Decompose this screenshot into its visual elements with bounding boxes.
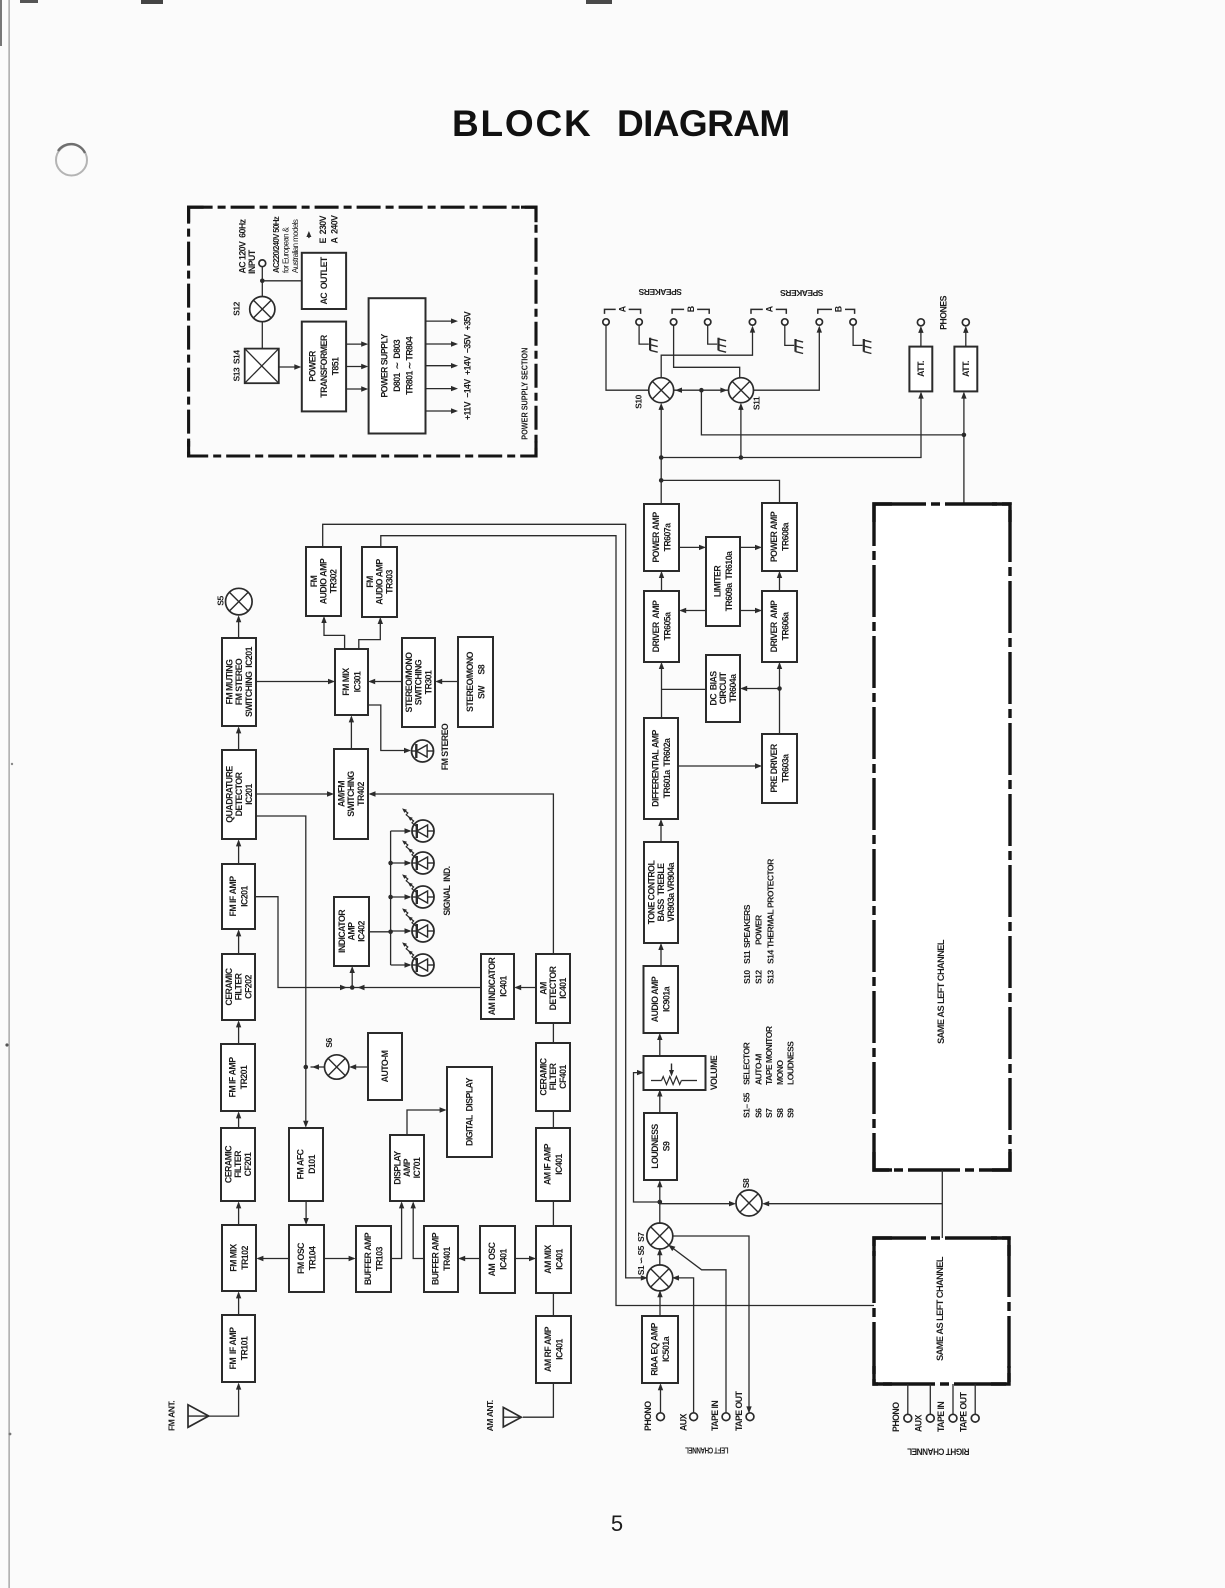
svg-text:E 230V: E 230V — [318, 215, 328, 243]
label LEFT CHANNEL — [685, 1446, 728, 1455]
label SPEAKERS group 2 — [780, 288, 824, 298]
wire S7 to loudness — [657, 1180, 662, 1224]
wire IC201 to quadrature detector — [236, 839, 241, 864]
label A group2 — [751, 305, 786, 314]
svg-text:S9: S9 — [661, 1141, 671, 1151]
wire TR605a to TR607a — [659, 571, 664, 591]
label B group2 — [818, 306, 855, 314]
AM IF amp IC401 — [536, 1128, 570, 1201]
svg-text:CF201: CF201 — [243, 1152, 253, 1176]
wire supply output +35V — [426, 318, 459, 323]
svg-text:SWITCHING IC201: SWITCHING IC201 — [244, 646, 254, 717]
wire S11 to terminal7 — [754, 326, 823, 391]
signal LED 3 — [402, 874, 434, 908]
svg-text:TRANSFORMER: TRANSFORMER — [319, 334, 329, 398]
limiter TR609a TR610a — [706, 537, 740, 626]
svg-text:Australian models: Australian models — [291, 219, 300, 273]
svg-text:SAME AS LEFT CHANNEL: SAME AS LEFT CHANNEL — [935, 1256, 945, 1361]
svg-text:T851: T851 — [331, 357, 341, 376]
label SIGNAL IND. — [442, 866, 452, 915]
svg-text:DRIVER AMP: DRIVER AMP — [769, 600, 779, 652]
wire TR607a to limiter — [679, 545, 706, 550]
svg-text:S9: S9 — [786, 1108, 796, 1118]
svg-text:TAPE IN: TAPE IN — [936, 1402, 946, 1432]
svg-text:AM OSC: AM OSC — [487, 1241, 497, 1276]
AM RF amp IC401 — [536, 1316, 571, 1383]
stereo/mono switching TR301 — [402, 638, 435, 727]
svg-text:CERAMIC: CERAMIC — [224, 1145, 234, 1183]
label TAPE OUT right — [959, 1391, 969, 1432]
svg-text:SELECTOR: SELECTOR — [742, 1041, 752, 1085]
label RIGHT CHANNEL — [907, 1447, 970, 1457]
svg-text:BUFFER AMP: BUFFER AMP — [430, 1232, 440, 1285]
svg-text:TAPE OUT: TAPE OUT — [734, 1390, 744, 1431]
svg-text:DIFFERENTIAL AMP: DIFFERENTIAL AMP — [650, 729, 660, 806]
svg-text:S6: S6 — [753, 1108, 763, 1118]
svg-text:D801 ∼ D803: D801 ∼ D803 — [392, 339, 402, 392]
mono switch S8 — [736, 1178, 762, 1216]
wire FM AFC to FM osc — [303, 1201, 308, 1225]
svg-text:ATT.: ATT. — [916, 361, 926, 377]
wire TR103 to display amp — [391, 1201, 404, 1258]
speaker terminal 8 — [850, 319, 856, 325]
wire S10-S11 link — [674, 388, 729, 393]
wire TR302 to selector — [323, 524, 648, 1280]
switch S6 — [324, 1038, 349, 1080]
scan left edge shadow — [0, 0, 13, 1588]
wire TR301 to FM mix — [368, 679, 402, 684]
svg-text:S5: S5 — [216, 596, 226, 606]
wire indicator amp to LED bus — [369, 931, 391, 933]
driver amp TR605a — [644, 591, 679, 662]
switch S13 S14 — [232, 349, 279, 384]
svg-text:S6: S6 — [324, 1038, 334, 1048]
wire AM RF to AM mix — [552, 1293, 554, 1316]
svg-text:ATT.: ATT. — [961, 361, 971, 377]
svg-text:FM ANT.: FM ANT. — [167, 1401, 177, 1431]
svg-text:THERMAL PROTECTOR: THERMAL PROTECTOR — [766, 858, 776, 948]
punch hole — [56, 144, 87, 175]
driver amp TR606a — [762, 591, 797, 662]
svg-text:INPUT: INPUT — [247, 249, 257, 274]
svg-text:TAPE IN: TAPE IN — [710, 1401, 720, 1431]
svg-text:IC901a: IC901a — [662, 986, 672, 1012]
indicator amp IC402 — [334, 897, 369, 966]
svg-text:FILTER: FILTER — [548, 1062, 558, 1090]
FM mix TR102 — [222, 1225, 256, 1291]
svg-text:FM STEREO: FM STEREO — [440, 723, 450, 770]
wire TR608a join (horizontal C) — [661, 480, 779, 503]
AC input terminal — [259, 260, 266, 267]
ground g3 — [796, 339, 804, 354]
svg-text:POWER AMP: POWER AMP — [769, 511, 779, 562]
svg-text:LEFT CHANNEL: LEFT CHANNEL — [685, 1446, 728, 1455]
TAPE OUT terminal right — [971, 1414, 979, 1422]
svg-text:IC401: IC401 — [554, 1153, 564, 1174]
svg-text:TR605a: TR605a — [662, 612, 672, 641]
label PHONO left — [643, 1401, 653, 1431]
wire AM mix to AM IF amp — [552, 1201, 554, 1226]
svg-text:TAPE MONITOR: TAPE MONITOR — [764, 1025, 774, 1085]
label AUX left — [679, 1413, 689, 1431]
loudness switch S9 box — [644, 1113, 677, 1180]
svg-text:SWITCHING: SWITCHING — [414, 659, 424, 705]
svg-text:S8: S8 — [741, 1178, 751, 1188]
svg-text:PRE DRIVER: PRE DRIVER — [769, 743, 779, 792]
label PHONES — [939, 295, 949, 330]
svg-text:TR102: TR102 — [240, 1246, 250, 1270]
legend S8 MONO — [775, 1060, 785, 1118]
label AC220/240V 50Hz note — [272, 216, 300, 273]
FM audio amp TR303 — [362, 547, 397, 617]
label &#8722;35V — [463, 334, 473, 353]
svg-text:IC201: IC201 — [244, 783, 254, 804]
label +14V — [463, 356, 473, 375]
svg-text:TR606a: TR606a — [780, 612, 790, 641]
label TAPE OUT left — [734, 1390, 744, 1431]
wire S7 to tape out — [672, 1236, 752, 1413]
speaker terminal 3 — [670, 319, 676, 325]
svg-text:S11: S11 — [742, 950, 752, 964]
wire TR606a to TR608a — [777, 571, 782, 591]
ceramic filter CF202 — [222, 954, 255, 1020]
label AUX right — [913, 1414, 923, 1432]
auto-M switch box — [368, 1033, 402, 1100]
svg-text:AMP: AMP — [347, 922, 357, 941]
svg-text:POWER AMP: POWER AMP — [651, 512, 661, 563]
AM/FM switching TR402 — [334, 749, 368, 839]
AM oscillator IC401 — [480, 1226, 515, 1293]
wire mono switch S8 line left — [658, 1200, 737, 1207]
svg-text:TR401: TR401 — [442, 1247, 452, 1271]
audio amp IC901a — [644, 966, 679, 1033]
legend S1-S5 SELECTOR — [742, 1041, 752, 1118]
quadrature detector IC201 — [222, 750, 256, 839]
svg-text:IC402: IC402 — [356, 920, 366, 941]
wire AM/FM switching to FM mix — [349, 715, 354, 749]
svg-text:LIMITER: LIMITER — [712, 565, 722, 598]
svg-text:IC201: IC201 — [239, 885, 249, 906]
svg-text:IC401: IC401 — [558, 977, 568, 998]
svg-text:TR601a TR602a: TR601a TR602a — [662, 738, 672, 798]
FM mix IC301 — [335, 649, 368, 715]
svg-text:TR301: TR301 — [423, 670, 433, 694]
svg-text:IC401: IC401 — [498, 975, 508, 996]
tone control VR903a VR904a — [644, 842, 678, 943]
wire TR303 to right channel box — [381, 536, 874, 1306]
wire LED stub 2 — [391, 860, 412, 865]
wire mono switch S8 line right — [762, 1201, 942, 1206]
right channel box2 corners — [874, 1238, 1009, 1384]
wire FM ant to TR101 — [209, 1383, 242, 1417]
power supply section border — [189, 207, 536, 456]
wire FM IF amp to indicator junction — [255, 897, 481, 991]
wire quad to AM/FM switching — [256, 791, 334, 796]
ceramic filter CF201 — [221, 1128, 255, 1201]
wire RIAA to selector S1-S5 — [657, 1290, 662, 1316]
svg-text:AUDIO AMP: AUDIO AMP — [650, 976, 660, 1022]
wire transformer to supply 3 — [346, 386, 368, 391]
digital display — [447, 1067, 492, 1157]
wire pre driver up — [777, 662, 782, 734]
phones terminal L — [917, 319, 924, 326]
svg-text:AM MIX: AM MIX — [543, 1245, 553, 1274]
wire right channel feed (horizontal A) — [701, 390, 966, 437]
signal LED 1 — [402, 808, 434, 842]
svg-text:AUDIO AMP: AUDIO AMP — [375, 559, 385, 605]
wire transformer to supply 1 — [346, 341, 368, 346]
svg-text:RIAA EQ AMP: RIAA EQ AMP — [649, 1323, 659, 1376]
svg-text:FM: FM — [365, 576, 375, 588]
svg-text:TONE CONTROL: TONE CONTROL — [647, 860, 657, 925]
wire box2 to AUX right — [929, 1384, 931, 1414]
wire LED stub 3 — [391, 894, 412, 899]
svg-text:TR101: TR101 — [239, 1336, 249, 1360]
svg-text:S11: S11 — [752, 396, 762, 410]
svg-text:AMP: AMP — [402, 1158, 412, 1177]
svg-text:S8: S8 — [775, 1108, 785, 1118]
wire S1-S5 to S7 — [657, 1248, 662, 1266]
svg-text:TR608a: TR608a — [780, 522, 790, 551]
svg-text:SPEAKERS: SPEAKERS — [780, 288, 824, 298]
PHONO terminal left — [657, 1413, 665, 1421]
wire TR607a to S10 — [659, 403, 664, 504]
ground g4 — [864, 339, 872, 354]
wire AUTO-M to S6 — [349, 1064, 368, 1069]
svg-text:POWER SUPPLY: POWER SUPPLY — [380, 333, 390, 397]
legend S13 S14 THERMAL PROTECTOR — [766, 858, 776, 984]
wire FM mix to TR303 — [359, 617, 383, 649]
AUX terminal left — [690, 1413, 698, 1421]
svg-text:AM RF AMP: AM RF AMP — [543, 1326, 553, 1372]
wire TR201 to CF202 — [236, 1020, 241, 1044]
svg-text:LOUDNESS: LOUDNESS — [786, 1041, 796, 1085]
wire quad to FM muting — [236, 726, 241, 750]
wire display amp to digital display — [407, 1107, 447, 1135]
switch S12 — [232, 297, 275, 322]
svg-text:S1 ∽ S5: S1 ∽ S5 — [636, 1245, 646, 1275]
TAPE OUT terminal left — [746, 1413, 754, 1421]
wire box2 to PHONO right — [907, 1384, 909, 1414]
wire CF202 to IC201 — [236, 929, 241, 954]
wire terminal6 to ground — [785, 325, 794, 345]
svg-text:AUTO-M: AUTO-M — [753, 1054, 763, 1085]
wire box1 to box2 via S8 line — [941, 1170, 943, 1238]
svg-text:AM IF AMP: AM IF AMP — [542, 1143, 552, 1185]
switch S10 — [634, 378, 674, 409]
wire ATT-L to phones — [918, 326, 923, 347]
svg-text:AUTO-M: AUTO-M — [380, 1050, 390, 1082]
svg-text:PHONO: PHONO — [643, 1401, 653, 1431]
wire to DC bias circuit — [740, 686, 779, 691]
wire terminal1 to S10 — [606, 325, 649, 390]
svg-text:S10: S10 — [634, 394, 644, 408]
svg-text:AM ANT.: AM ANT. — [485, 1400, 495, 1431]
FM IF amp TR201 — [221, 1044, 255, 1111]
wire supply output &#8722;35V — [426, 341, 459, 346]
svg-text:FM MUTING: FM MUTING — [225, 659, 235, 705]
svg-text:FM MIX: FM MIX — [341, 668, 351, 696]
svg-text:FM IF AMP: FM IF AMP — [228, 1327, 238, 1370]
svg-text:AC 120V 60Hz: AC 120V 60Hz — [237, 218, 247, 273]
label TAPE IN left — [710, 1401, 720, 1431]
DC bias circuit TR604a — [706, 655, 740, 722]
right channel box1 corners — [874, 504, 1010, 1170]
title BLOCK DIAGRAM — [452, 103, 790, 144]
speaker terminal 6 — [782, 319, 788, 325]
right channel box 1 (same as left channel) — [874, 504, 1010, 1170]
svg-text:DETECTOR: DETECTOR — [548, 965, 558, 1010]
ceramic filter CF401 — [536, 1043, 570, 1111]
FM audio amp TR302 — [306, 547, 341, 616]
FM stereo LED — [412, 723, 451, 770]
phones terminal R — [962, 319, 969, 326]
svg-text:BASS TREBLE: BASS TREBLE — [656, 863, 666, 922]
FM antenna — [167, 1401, 209, 1431]
wire terminal3 to S11 top — [674, 325, 740, 378]
speaker terminal 2 — [636, 319, 642, 325]
label &#8722;14V — [463, 379, 473, 398]
LED bus — [388, 831, 393, 965]
wire audio amp to tone control — [658, 943, 663, 966]
svg-text:STEREO/MONO: STEREO/MONO — [465, 651, 475, 712]
wire S12 to S13/S14 — [261, 322, 263, 349]
power amp TR608a — [762, 503, 797, 571]
switch S5 — [216, 588, 253, 615]
AM indicator IC401 — [481, 954, 514, 1019]
wire tape in to S7 — [668, 1245, 726, 1414]
differential amp TR601a TR602a — [644, 718, 678, 819]
svg-text:DETECTOR: DETECTOR — [234, 771, 244, 816]
svg-text:TAPE OUT: TAPE OUT — [959, 1391, 969, 1432]
wire FM muting to S5 — [236, 615, 241, 638]
svg-text:VR903a VR904a: VR903a VR904a — [666, 862, 676, 922]
wire AM osc to AM mix — [515, 1256, 536, 1261]
svg-text:AC OUTLET: AC OUTLET — [319, 256, 329, 304]
svg-text:FM OSC: FM OSC — [296, 1242, 306, 1274]
svg-text:DC BIAS: DC BIAS — [709, 671, 719, 706]
svg-text:LOUDNESS: LOUDNESS — [650, 1124, 660, 1169]
wire to AC outlet — [262, 280, 302, 282]
legend S6 AUTO-M — [753, 1054, 763, 1118]
attenuator ATT right — [954, 347, 977, 392]
AC outlet — [302, 253, 346, 309]
svg-text:AM INDICATOR: AM INDICATOR — [487, 957, 497, 1016]
pre driver TR603a — [762, 734, 797, 803]
wire indicator junction up — [350, 966, 355, 988]
wire TR605a branch to DC bias — [662, 688, 707, 690]
svg-text:PHONES: PHONES — [939, 295, 949, 330]
wire box2 to TAPE IN right — [952, 1384, 954, 1414]
svg-text:AUX: AUX — [913, 1414, 923, 1432]
signal LED 2 — [402, 840, 434, 874]
svg-text:IC401: IC401 — [498, 1248, 508, 1269]
wire terminal8 to ground — [853, 325, 862, 345]
wire loudness to volume — [657, 1090, 662, 1114]
wire left channel feed (horizontal B) — [659, 392, 924, 460]
svg-text:PHONO: PHONO — [891, 1402, 901, 1432]
attenuator ATT left — [909, 347, 932, 392]
svg-text:CERAMIC: CERAMIC — [539, 1057, 549, 1095]
svg-text:S1– S5: S1– S5 — [742, 1092, 752, 1118]
svg-text:B: B — [686, 306, 696, 312]
svg-text:TR104: TR104 — [307, 1246, 317, 1270]
svg-text:TR201: TR201 — [239, 1065, 249, 1089]
legend S7 TAPE MONITOR — [764, 1025, 774, 1118]
svg-text:POWER: POWER — [308, 350, 318, 382]
wire FM osc to buffer TR103 — [324, 1256, 356, 1261]
legend S10 S11 SPEAKERS — [742, 904, 752, 984]
ground g2 — [719, 338, 727, 353]
wire TR101 to TR102 — [236, 1291, 241, 1315]
svg-text:TR302: TR302 — [328, 569, 338, 593]
svg-text:AM/FM: AM/FM — [337, 781, 347, 807]
label TAPE IN right — [936, 1402, 946, 1432]
TAPE IN terminal left — [722, 1413, 730, 1421]
voltage-select arrow — [306, 231, 311, 238]
wire ATT-R to phones — [963, 326, 968, 347]
svg-text:CERAMIC: CERAMIC — [224, 967, 234, 1005]
speaker terminal 1 — [603, 319, 609, 325]
legend S9 LOUDNESS — [786, 1041, 796, 1118]
wire supply output +14V — [426, 363, 459, 368]
display amp IC701 — [390, 1135, 424, 1201]
svg-text:FM: FM — [309, 575, 319, 587]
svg-text:−14V: −14V — [463, 379, 473, 398]
power section border corners — [189, 207, 536, 456]
switch S11 — [729, 378, 762, 410]
wire CF401 to AM detector — [552, 1023, 554, 1043]
wire supply output &#8722;14V — [426, 386, 459, 391]
speaker terminal 7 — [816, 319, 822, 325]
page number 5 — [611, 1511, 623, 1536]
wire PHONO to RIAA amp — [658, 1383, 663, 1413]
wire terminal2 to ground — [639, 325, 649, 344]
svg-text:+35V: +35V — [463, 311, 473, 330]
wire limiter to TR606a — [740, 608, 762, 613]
svg-text:AC220/240V 50Hz: AC220/240V 50Hz — [272, 216, 281, 273]
label SPEAKERS group 1 — [638, 287, 682, 297]
svg-text:IC701: IC701 — [412, 1157, 422, 1178]
svg-text:TR402: TR402 — [356, 782, 366, 806]
label PHONO right — [891, 1402, 901, 1432]
svg-text:S13: S13 — [766, 970, 776, 984]
label +11V — [463, 401, 473, 420]
wire transformer to supply 2 — [346, 364, 368, 369]
svg-text:S12: S12 — [232, 301, 242, 315]
wire quad to FM AFC — [256, 816, 309, 1128]
svg-text:FM MIX: FM MIX — [228, 1244, 238, 1272]
svg-text:DIGITAL DISPLAY: DIGITAL DISPLAY — [465, 1077, 475, 1146]
svg-text:RIGHT CHANNEL: RIGHT CHANNEL — [907, 1447, 970, 1457]
scan top edge marks — [20, 0, 612, 4]
svg-text:TR603a: TR603a — [780, 754, 790, 783]
wire limiter to TR605a — [679, 608, 706, 613]
signal LED 5 — [402, 942, 434, 976]
svg-text:SAME AS LEFT CHANNEL: SAME AS LEFT CHANNEL — [936, 939, 946, 1044]
label AC 120V 60Hz INPUT — [237, 218, 257, 274]
TAPE IN terminal right — [949, 1414, 957, 1422]
svg-text:SIGNAL IND.: SIGNAL IND. — [442, 866, 452, 915]
svg-text:TR801 ∼ TR804: TR801 ∼ TR804 — [405, 336, 415, 395]
svg-text:for European &: for European & — [282, 226, 291, 273]
svg-text:IC401: IC401 — [554, 1338, 564, 1359]
svg-text:FILTER: FILTER — [234, 972, 244, 1000]
AM antenna — [485, 1400, 521, 1431]
svg-text:STEREO/MONO: STEREO/MONO — [404, 652, 414, 713]
wire differential to pre driver — [678, 763, 762, 768]
svg-text:S13 S14: S13 S14 — [232, 350, 242, 382]
